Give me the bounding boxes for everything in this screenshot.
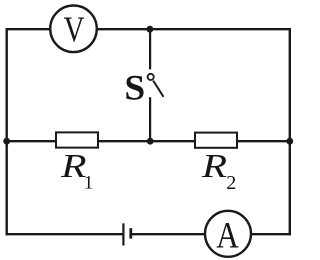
svg-text:1: 1 <box>84 172 94 193</box>
wire: left side of loop <box>5 28 7 235</box>
ammeter A <box>205 211 251 257</box>
wire: bottom side, left segment to battery <box>7 233 124 235</box>
resistor R1 <box>56 132 98 147</box>
resistor R2 <box>195 133 237 148</box>
svg-text:2: 2 <box>226 172 236 194</box>
wire: switch branch upper <box>149 29 151 69</box>
switch S blade <box>153 81 163 97</box>
wire: bottom side, right segment from battery <box>131 233 290 235</box>
wire: middle rail <box>7 140 290 142</box>
node: middle rail meets right side <box>286 138 293 145</box>
svg-text:V: V <box>64 9 85 49</box>
battery cell long plate <box>122 223 124 245</box>
svg-text:S: S <box>124 68 145 108</box>
node: middle rail at switch branch <box>147 138 154 145</box>
node: top junction of switch branch <box>147 26 154 33</box>
node: middle rail meets left side <box>3 138 10 145</box>
svg-text:R: R <box>201 148 227 185</box>
svg-text:A: A <box>216 216 239 257</box>
wire: top side of loop <box>7 28 290 30</box>
switch S terminal circle <box>148 74 154 80</box>
battery cell short plate <box>129 228 132 238</box>
wire: right side of loop <box>289 28 291 235</box>
wire: switch branch lower <box>149 97 151 141</box>
voltmeter V <box>50 6 97 53</box>
